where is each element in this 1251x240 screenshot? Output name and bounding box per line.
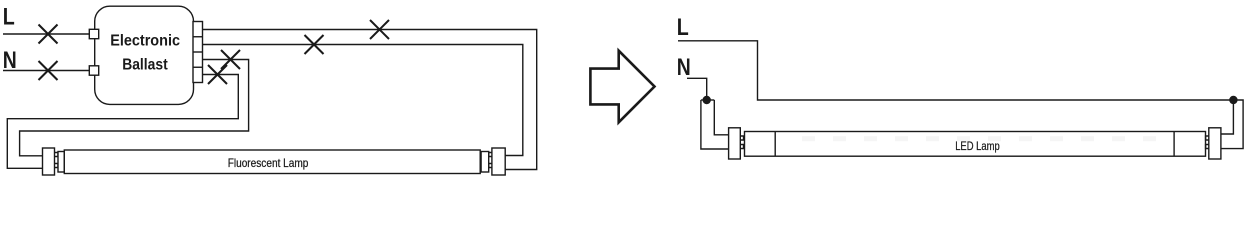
- ballast output pin block (4 pins): [193, 22, 203, 83]
- wire N branch to LED left cap top: [714, 100, 728, 135]
- cut mark X3 on pin1 wire: [370, 20, 389, 39]
- LED lamp left cap: [729, 128, 741, 159]
- transform arrow: [590, 51, 654, 123]
- fluorescent lamp left end disc: [58, 152, 64, 173]
- LED lamp right cap: [1209, 128, 1221, 159]
- wire N input: [3, 70, 89, 72]
- cut mark X2 on N wire: [39, 61, 58, 80]
- svg-text:N: N: [677, 54, 691, 81]
- wire ballast pin3 to lamp left cap top: [20, 60, 249, 156]
- fluorescent lamp right cap: [492, 148, 505, 175]
- LED lamp left pins: [740, 136, 743, 140]
- LED lamp right pins: [1206, 136, 1209, 140]
- svg-text:Ballast: Ballast: [122, 57, 168, 74]
- cut mark X1 on L wire: [39, 25, 58, 44]
- LED lamp right divider: [1173, 132, 1175, 157]
- cut mark X6 on pin4 wire: [208, 65, 227, 84]
- wire L branch to LED right cap top: [1221, 100, 1234, 134]
- fluorescent lamp tube: [64, 150, 480, 174]
- ballast input terminal square 1: [89, 29, 98, 38]
- LED lamp left divider: [774, 132, 776, 157]
- junction bar at N dot: [701, 99, 714, 101]
- svg-text:Fluorescent Lamp: Fluorescent Lamp: [228, 156, 309, 170]
- junction dot L: [1229, 96, 1237, 104]
- fluorescent lamp left cap: [43, 148, 55, 175]
- LED lamp tube: [745, 132, 1206, 157]
- wire ballast pin4 to lamp left cap bottom: [7, 75, 238, 169]
- ballast input terminal square 2: [89, 66, 98, 75]
- svg-text:L: L: [3, 4, 15, 31]
- fluorescent lamp right end disc: [481, 152, 489, 173]
- cut mark X4 on pin2 wire: [305, 35, 324, 54]
- wire L to LED lamp right end: [678, 41, 1233, 100]
- electronic ballast box: [95, 6, 194, 104]
- junction dot N: [703, 96, 711, 104]
- svg-text:Electronic: Electronic: [110, 33, 180, 50]
- wire ballast pin1 to lamp right cap bottom: [203, 30, 537, 170]
- wire ballast pin2 to lamp right cap top: [203, 45, 523, 156]
- fluorescent lamp left pins: [55, 153, 59, 157]
- cut mark X5 on pin3 wire: [221, 50, 240, 69]
- wire N branch to LED left cap bottom: [701, 100, 729, 149]
- wire N down to junction: [687, 78, 707, 100]
- wire L branch to LED right cap bottom: [1221, 100, 1243, 149]
- fluorescent lamp right pins: [489, 153, 492, 157]
- svg-text:LED Lamp: LED Lamp: [955, 139, 1000, 153]
- svg-text:L: L: [677, 14, 689, 41]
- LED chips strip: [790, 136, 1170, 141]
- wire L input: [3, 33, 89, 35]
